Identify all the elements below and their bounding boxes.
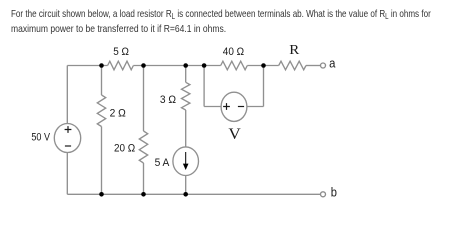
wire V loop left vertical bbox=[203, 66, 205, 107]
50V source plus sign bbox=[65, 126, 72, 133]
node top 2ohm junction bbox=[99, 63, 104, 68]
V source plus sign bbox=[223, 103, 230, 110]
svg-text:b: b bbox=[331, 186, 337, 200]
svg-text:V: V bbox=[228, 126, 241, 143]
wire to terminal a bbox=[306, 65, 320, 67]
wire 20ohm branch upper bbox=[143, 66, 145, 132]
wire bottom horizontal bbox=[67, 193, 320, 195]
svg-text:40 Ω: 40 Ω bbox=[223, 46, 244, 58]
resistor 5ohm bbox=[108, 61, 134, 70]
wire left branch upper bbox=[66, 66, 68, 124]
wire V loop left horizontal bbox=[204, 106, 221, 108]
wire 3ohm branch upper bbox=[185, 66, 187, 83]
node top V loop left junction bbox=[202, 63, 207, 68]
question text bbox=[11, 7, 474, 37]
wire 20ohm branch lower bbox=[143, 163, 145, 194]
resistor 40ohm bbox=[221, 61, 248, 70]
current source 5A arrow bbox=[185, 152, 186, 164]
wire 2ohm branch lower bbox=[101, 127, 103, 195]
svg-text:5 A: 5 A bbox=[155, 157, 170, 169]
node bottom 20ohm junction bbox=[141, 192, 146, 197]
voltage source 50V circle bbox=[54, 124, 80, 153]
wire V loop right vertical bbox=[263, 66, 265, 107]
svg-text:20 Ω: 20 Ω bbox=[114, 142, 135, 154]
wire top left horizontal bbox=[67, 65, 107, 67]
V source minus sign bbox=[238, 106, 244, 108]
resistor 3ohm bbox=[182, 82, 190, 110]
terminal b circle bbox=[321, 192, 326, 197]
resistor R bbox=[279, 61, 306, 70]
resistor 20ohm bbox=[139, 131, 147, 163]
node top 3ohm junction bbox=[183, 63, 188, 68]
svg-text:R: R bbox=[289, 43, 300, 58]
node top V loop right junction bbox=[261, 63, 266, 68]
svg-text:5 Ω: 5 Ω bbox=[113, 46, 129, 58]
wire 2ohm branch upper bbox=[101, 66, 103, 96]
node bottom 3ohm junction bbox=[183, 192, 188, 197]
node bottom 2ohm junction bbox=[99, 192, 104, 197]
wire top middle horizontal bbox=[133, 65, 220, 67]
voltage source V circle bbox=[221, 92, 247, 121]
svg-text:2 Ω: 2 Ω bbox=[110, 108, 126, 120]
node top 20ohm junction bbox=[141, 63, 146, 68]
current source 5A circle bbox=[173, 147, 199, 176]
wire 5A source lower bbox=[185, 176, 187, 195]
50V source minus sign bbox=[65, 145, 71, 147]
wire between 40ohm and R bbox=[247, 65, 278, 67]
svg-text:a: a bbox=[329, 55, 336, 70]
svg-text:50 V: 50 V bbox=[31, 132, 50, 144]
wire 3ohm to 5A source bbox=[185, 110, 187, 147]
wire V loop right horizontal bbox=[247, 106, 264, 108]
terminal a circle bbox=[321, 63, 326, 68]
resistor 2ohm bbox=[97, 95, 105, 127]
svg-text:3 Ω: 3 Ω bbox=[160, 94, 176, 106]
wire left branch lower bbox=[66, 153, 68, 195]
